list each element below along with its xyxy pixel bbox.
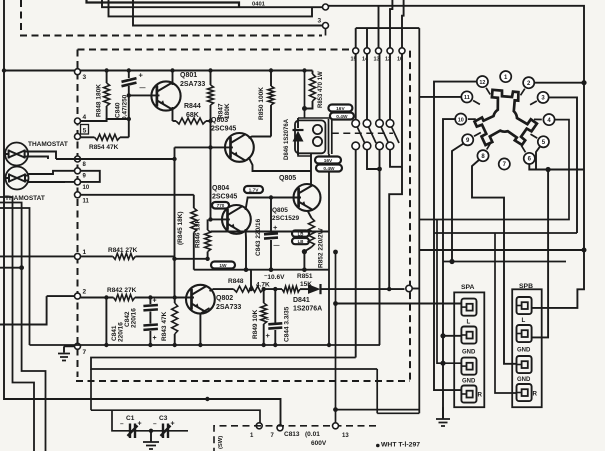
- wire Q805 emitter: [308, 212, 312, 219]
- junction relay col: [387, 287, 391, 291]
- wire conn 12 up: [390, 0, 392, 48]
- svg-text:GND: GND: [517, 377, 531, 383]
- svg-text:–: –: [153, 421, 157, 428]
- wire A-rail mid: [419, 249, 584, 251]
- svg-text:1W: 1W: [219, 263, 227, 269]
- svg-text:—: —: [274, 243, 280, 249]
- wire pin 11 to R845: [81, 194, 194, 196]
- junction Q805 base / C843: [269, 195, 273, 199]
- SPA terminal 1: [461, 299, 476, 316]
- rotary pin 11: [461, 91, 472, 102]
- svg-text:(0.01: (0.01: [305, 431, 320, 438]
- resistor R843 47K: [174, 298, 176, 304]
- connector pin board right: [406, 285, 412, 291]
- svg-text:(SW): (SW): [218, 436, 224, 449]
- junction WHT wire: [376, 444, 380, 448]
- junction pin9 line: [449, 259, 454, 264]
- resistor R847 180K: [210, 71, 212, 86]
- svg-text:10: 10: [458, 117, 464, 123]
- wire SPA T3 feed: [437, 220, 461, 364]
- capacitor C842 220/16: [149, 298, 151, 305]
- wire emitter to bottom rail: [303, 252, 305, 270]
- junction dot pin7b wire: [205, 397, 209, 401]
- svg-text:5: 5: [83, 128, 87, 135]
- wire contact3 down: [379, 150, 381, 345]
- wire conn 14 up: [366, 28, 368, 48]
- wire node-3 stub down: [325, 29, 327, 36]
- svg-text:R850 100K: R850 100K: [258, 87, 265, 120]
- svg-text:THAMOSTAT: THAMOSTAT: [28, 141, 68, 148]
- svg-text:2SC1529: 2SC1529: [272, 215, 299, 222]
- wire Q802 base: [175, 297, 194, 299]
- wire contact cols top: [355, 54, 357, 120]
- wire Q803 base to Q802 base column: [174, 147, 176, 297]
- resistor R849 10K: [263, 289, 265, 303]
- svg-text:R844: R844: [184, 103, 201, 110]
- relay coil: [313, 125, 322, 134]
- junction R843 top: [173, 295, 177, 299]
- svg-text:2SA733: 2SA733: [216, 304, 241, 311]
- svg-text:7: 7: [83, 349, 87, 356]
- wire pin 2 left: [47, 295, 75, 297]
- svg-text:LB: LB: [298, 239, 304, 244]
- wire long vertical x419: [418, 28, 420, 413]
- resistor R848 180K: [106, 71, 108, 84]
- wire left loop 3: [0, 208, 30, 345]
- tag relay 1: [328, 105, 352, 112]
- junction R846 bottom: [205, 257, 209, 261]
- wire mid line A: [443, 261, 566, 263]
- svg-text:R843 47K: R843 47K: [161, 311, 168, 341]
- wire relay top tie: [298, 117, 332, 119]
- relay box: [295, 120, 325, 153]
- junction R848 top: [104, 68, 108, 72]
- transistor Q804 2SC945: [222, 205, 251, 234]
- wire rail3 drop right: [376, 369, 378, 413]
- junction C843 bottom: [249, 287, 253, 291]
- svg-text:13: 13: [342, 433, 349, 439]
- wire conn 15 up: [355, 28, 357, 48]
- svg-text:R846 18K: R846 18K: [195, 218, 202, 248]
- svg-text:R849 10K: R849 10K: [252, 309, 259, 339]
- junction Q803 base column: [208, 145, 212, 149]
- relay contact 4: [386, 120, 394, 128]
- svg-text:68K: 68K: [186, 112, 199, 119]
- resistor R846 18K: [207, 219, 209, 230]
- dashed relay board right edge: [409, 51, 411, 381]
- wire mid line C pin4: [419, 120, 569, 220]
- dashed main board bottom edge: [76, 380, 410, 382]
- junction A-rail: [582, 248, 587, 253]
- svg-text:GND: GND: [462, 379, 476, 385]
- junction C841 col: [104, 295, 108, 299]
- node pin 3 top: [323, 23, 329, 29]
- wire contact1 down: [355, 150, 357, 358]
- rotary pin 3: [538, 92, 549, 103]
- capacitor C843 220/16: [270, 196, 272, 233]
- svg-text:R854 47K: R854 47K: [89, 144, 119, 151]
- wire bottom rail 2: [91, 358, 377, 370]
- junction common rail: [327, 343, 331, 347]
- wire Q802 emitter: [210, 289, 214, 291]
- transistor Q801 2SA733: [151, 81, 180, 110]
- connector pin 3: [75, 69, 81, 75]
- wire thermostat2 to pin 10: [29, 181, 75, 183]
- svg-text:2: 2: [83, 289, 87, 296]
- wire bottom rail: [30, 344, 381, 346]
- SPA terminal 4: [461, 386, 476, 403]
- junction R849 top: [262, 287, 266, 291]
- wire SPA T1 feed: [336, 303, 462, 305]
- wire left vertical rail: [4, 0, 281, 425]
- connector pin 15: [353, 48, 359, 54]
- relay contact 1: [352, 120, 360, 128]
- svg-text:10: 10: [83, 185, 90, 191]
- svg-text:⁻10.6V: ⁻10.6V: [264, 274, 285, 281]
- svg-text:+: +: [171, 421, 175, 428]
- wire rotary pin6: [529, 164, 584, 169]
- wire Q803 collector: [249, 137, 272, 139]
- connector pin 1: [75, 253, 81, 259]
- wire rotary pin2: [535, 82, 585, 84]
- wire pin 1 left: [0, 255, 75, 257]
- capacitor C844 3.3/35: [274, 289, 276, 322]
- junction left branch: [19, 265, 24, 270]
- speaker terminal block SPB: [512, 289, 542, 407]
- connector pin 12: [387, 48, 393, 54]
- relay contact 2: [363, 120, 371, 128]
- wire top bus 4: [133, 0, 323, 26]
- svg-text:D846 1S2076A: D846 1S2076A: [284, 118, 290, 160]
- capacitor C1: [128, 424, 138, 439]
- svg-text:+: +: [153, 335, 157, 342]
- tag 1.7V: [244, 186, 263, 193]
- svg-text:Q805: Q805: [279, 175, 296, 182]
- junction pin6: [546, 167, 551, 172]
- wire thermostat1 stub 2: [28, 157, 48, 160]
- connector pin 7: [75, 343, 81, 349]
- speaker terminal block SPA: [454, 292, 484, 407]
- wire Q803 base: [175, 146, 233, 148]
- svg-text:14: 14: [362, 57, 369, 63]
- connector pin 16: [399, 48, 405, 54]
- wire relay supply: [304, 71, 306, 119]
- junction left rail: [2, 68, 6, 72]
- wire rotary pin8: [472, 160, 517, 364]
- svg-text:C3: C3: [159, 415, 168, 422]
- svg-text:16V: 16V: [336, 106, 345, 112]
- svg-text:Q802: Q802: [216, 295, 233, 302]
- wire Q801 base: [129, 94, 160, 96]
- wire Q804 emitter: [245, 229, 248, 270]
- rotary pin 8: [477, 150, 488, 161]
- wire SPB T4 feed: [495, 233, 517, 393]
- wire relay common column: [328, 154, 330, 345]
- svg-text:2SA733: 2SA733: [180, 81, 205, 88]
- wire Q805 base: [248, 197, 301, 199]
- svg-text:R: R: [478, 392, 483, 399]
- ground caps: [143, 442, 159, 449]
- junction R850 top: [269, 68, 273, 72]
- wire thermostat1 to pin 8: [28, 152, 56, 160]
- transistor Q802 2SA733: [186, 285, 215, 314]
- wire Q804 collector: [246, 197, 248, 211]
- wire Q801 emitter to rail: [172, 71, 174, 86]
- resistor R852 220/2W: [309, 218, 315, 247]
- wire Q805 collector: [310, 153, 312, 185]
- dashed main board left edge: [77, 50, 79, 378]
- junction T2 feed: [440, 333, 445, 338]
- wire mid line B: [434, 232, 577, 234]
- dashed main board top edge: [78, 49, 353, 51]
- resistor R854 47K: [81, 136, 95, 138]
- junction lower bus C843: [269, 267, 274, 272]
- junction pin2 rail: [581, 80, 586, 85]
- junction lower bus emitter: [244, 267, 249, 272]
- wire cap feed: [112, 410, 188, 431]
- junction contact2-3: [377, 167, 382, 172]
- svg-text:R851: R851: [297, 273, 313, 280]
- junction caps: [149, 429, 153, 433]
- junction T3 cross: [440, 361, 445, 366]
- transistor Q805 2SC1529: [294, 184, 321, 211]
- ground pin7: [58, 354, 70, 361]
- junction R847 top: [208, 68, 212, 72]
- wire pin to long vertical: [412, 288, 419, 290]
- rotary pin 12: [477, 76, 488, 87]
- diode D846 1S2076A: [297, 118, 299, 128]
- svg-text:L: L: [467, 319, 471, 326]
- connector pin 5 boxed: [75, 134, 81, 140]
- connector pin 2: [75, 293, 81, 299]
- svg-text:Q805: Q805: [272, 207, 288, 214]
- diode D841 1S2076A: [300, 288, 308, 290]
- tag 1W: [211, 262, 235, 269]
- capacitor C841 220/16: [149, 312, 151, 324]
- resistor R850 100K: [270, 71, 272, 87]
- wire pin13 up to A-rail: [335, 252, 337, 423]
- svg-text:GND: GND: [517, 348, 531, 354]
- wire pin 8: [56, 158, 175, 160]
- tag relay 2: [330, 113, 354, 120]
- svg-text:12: 12: [479, 80, 485, 86]
- relay contact 3: [376, 120, 384, 128]
- SPB terminal 3: [517, 356, 532, 373]
- svg-text:C813: C813: [284, 431, 300, 438]
- relay contact linkage dashed: [332, 132, 393, 134]
- resistor R842 27K: [81, 297, 114, 299]
- wire emitter bottom tie: [175, 258, 210, 260]
- rotary pin 10: [455, 114, 466, 125]
- svg-text:SPB: SPB: [519, 283, 533, 290]
- wire rotary pin9: [452, 144, 464, 262]
- wire rotary pin3: [549, 97, 577, 233]
- connector pin 7 bottom: [277, 425, 283, 431]
- wire bottom distribution: [91, 410, 260, 423]
- resistor R853 470 1W: [312, 71, 314, 75]
- wire Q801 collector down: [172, 107, 174, 121]
- svg-text:THAMOSTAT: THAMOSTAT: [5, 195, 45, 202]
- wire pin4 to R848 bottom: [81, 119, 129, 121]
- svg-text:R841 27K: R841 27K: [108, 247, 138, 254]
- dashed outer shield boundary: [21, 0, 322, 36]
- svg-text:–: –: [120, 421, 124, 428]
- svg-text:R853 470 1W: R853 470 1W: [318, 71, 324, 108]
- wire Q804 base: [211, 218, 230, 220]
- tag 770: [212, 202, 229, 209]
- wire left loop 1: [0, 197, 34, 451]
- SPB terminal 1: [517, 297, 532, 314]
- svg-text:0.47/250: 0.47/250: [122, 94, 129, 120]
- svg-text:4: 4: [83, 114, 87, 121]
- svg-text:11: 11: [464, 95, 470, 101]
- svg-text:1: 1: [83, 249, 87, 256]
- wire board mid line: [211, 231, 330, 233]
- svg-text:R: R: [533, 391, 538, 398]
- resistor R848b 4.7K: [234, 286, 264, 292]
- tag relay 4: [316, 165, 342, 172]
- rotary pin 4: [543, 114, 554, 125]
- transistor Q803 2SC945: [225, 133, 254, 162]
- thermostat 2: [6, 167, 29, 190]
- junction C842 col: [148, 295, 152, 299]
- svg-text:1.7V: 1.7V: [249, 188, 260, 194]
- node pin top-A: [323, 4, 329, 10]
- rotary pin 9: [462, 134, 473, 145]
- svg-text:C840: C840: [115, 102, 122, 118]
- junction pin13 lateral: [333, 407, 338, 412]
- svg-text:3: 3: [318, 18, 322, 25]
- relay core: [329, 119, 332, 154]
- svg-text:—: —: [140, 86, 146, 92]
- wire left loop 2: [0, 203, 46, 451]
- junction Q804 base: [208, 217, 212, 221]
- svg-text:+: +: [139, 71, 144, 80]
- wire top supply rail: [4, 70, 75, 72]
- wire conn 13 up: [378, 6, 380, 48]
- svg-text:2SC945: 2SC945: [212, 194, 237, 201]
- svg-text:1S2076A: 1S2076A: [293, 306, 322, 313]
- svg-text:+: +: [153, 298, 157, 305]
- svg-text:C843 220/16: C843 220/16: [255, 218, 262, 256]
- connector pin 8: [75, 156, 81, 162]
- thermostat 1: [5, 143, 28, 166]
- wire R847 column down: [210, 105, 212, 219]
- svg-text:600V: 600V: [311, 440, 327, 447]
- svg-text:+: +: [138, 421, 142, 428]
- wire C841 column: [105, 298, 107, 346]
- rotary pin 6: [524, 153, 535, 164]
- svg-text:SPA: SPA: [461, 284, 475, 291]
- junction C840 bottom: [127, 117, 131, 121]
- wire lower link: [377, 412, 419, 414]
- svg-text:11: 11: [83, 199, 90, 205]
- junction pin13 A-rail: [333, 250, 338, 255]
- wire left branch: [0, 267, 22, 269]
- wire Q802 collector: [200, 308, 209, 345]
- wire top bus 1: [87, 0, 240, 7]
- svg-text:16V: 16V: [324, 158, 333, 164]
- junction pin8 column: [172, 157, 176, 161]
- svg-text:R842 27K: R842 27K: [107, 287, 137, 294]
- capacitor C3: [161, 424, 171, 439]
- junction common mid: [302, 267, 307, 272]
- wire pins 9-10 jumper: [81, 171, 100, 182]
- connector pin 10: [75, 179, 81, 185]
- wire pin7 ground stub: [64, 345, 75, 347]
- wire lower bus: [194, 269, 329, 271]
- svg-text:770: 770: [217, 203, 225, 208]
- tag LB1: [292, 231, 309, 237]
- connector pin 1 bottom: [256, 423, 262, 429]
- resistor R841 27K: [81, 255, 113, 257]
- wire rail drop left: [90, 369, 92, 410]
- capacitor C840 0.47/250: [128, 71, 130, 79]
- SPB terminal 4: [517, 384, 532, 401]
- svg-text:Q801: Q801: [180, 72, 197, 79]
- junction T1 feed: [333, 301, 338, 306]
- connector pin 9: [75, 168, 81, 174]
- connector pin 4: [75, 118, 81, 124]
- wire rotary pin10: [443, 119, 455, 419]
- svg-text:+: +: [266, 331, 271, 340]
- junction C840 top: [127, 68, 131, 72]
- junction tie left: [172, 257, 176, 261]
- connector pin 13 bottom: [333, 423, 339, 429]
- wire Q802 emitter to R848b: [213, 288, 234, 290]
- junction R852 bottom: [302, 249, 307, 254]
- wire top bus 2: [102, 0, 323, 7]
- wire top bus 3: [109, 0, 313, 16]
- rotary pin 2: [523, 77, 534, 88]
- svg-text:0.4W: 0.4W: [323, 166, 335, 172]
- SPA terminal 3: [461, 358, 476, 375]
- wire rotary pin5: [536, 147, 540, 170]
- wire conn 16 up: [402, 0, 404, 48]
- ground right bottom: [442, 407, 444, 419]
- connector pin 11: [75, 192, 81, 198]
- wire relay bottom to Q805: [298, 153, 311, 156]
- wire caps to ground: [150, 431, 152, 442]
- tag relay 3: [315, 157, 341, 164]
- svg-text:0.4W: 0.4W: [336, 114, 348, 120]
- wire SPA T2 feed: [443, 335, 461, 337]
- junction Q801 emitter rail: [170, 68, 174, 72]
- wire contact4 down: [390, 150, 402, 167]
- svg-text:(R845 18K): (R845 18K): [177, 211, 184, 245]
- svg-text:GND: GND: [462, 350, 476, 356]
- svg-text:C844 3.3/35: C844 3.3/35: [284, 306, 291, 342]
- rotary pin 5: [538, 136, 549, 147]
- svg-text:WHT T-Ⅰ-297: WHT T-Ⅰ-297: [381, 441, 420, 449]
- junction relay top rail: [302, 68, 306, 72]
- svg-text:2SC945: 2SC945: [211, 126, 236, 133]
- resistor R845 18K: [193, 195, 195, 208]
- svg-text:R848 180K: R848 180K: [96, 84, 103, 117]
- connector pin 13: [376, 48, 382, 54]
- resistor R844 68K: [176, 118, 206, 124]
- resistor R851 15K: [282, 286, 300, 292]
- svg-text:D841: D841: [293, 297, 310, 304]
- wire conn16 down: [389, 54, 402, 289]
- junction Q801 base: [127, 93, 131, 97]
- wire rotary pin11: [419, 96, 461, 98]
- wire thermostat2 to pin 9: [29, 171, 75, 174]
- wire pin13 lateral: [336, 409, 420, 411]
- SPB terminal 2: [517, 325, 532, 342]
- rotary pin 7: [499, 158, 510, 169]
- junction rail dots: [104, 343, 108, 347]
